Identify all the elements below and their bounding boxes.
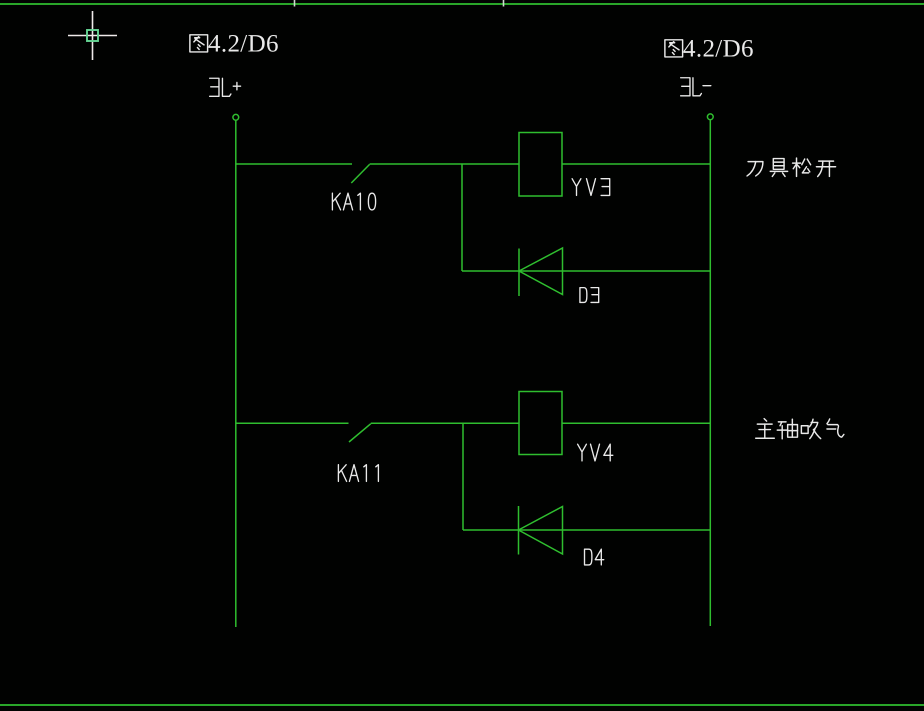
label YV3: [572, 179, 610, 196]
sheet reference label 图4.2/D6 (left): [190, 31, 279, 58]
wire branch1 horizontal to diode and bus: [462, 270, 710, 272]
diode D3 (cathode bar and triangle): [519, 248, 563, 296]
terminal circle node 3L+: [233, 114, 239, 120]
label D4: [585, 549, 604, 565]
solenoid coil YV4: [519, 392, 562, 455]
contact KA10 (normally-open switch blade): [351, 164, 369, 183]
label D3: [580, 288, 599, 303]
label YV4: [578, 444, 613, 461]
wire rung1 middle segment: [370, 163, 519, 165]
label KA11: [338, 465, 378, 482]
wire branch2 horizontal to diode and bus: [463, 529, 710, 531]
diode D4 (cathode bar and triangle): [519, 506, 563, 555]
wire rung1 left segment: [236, 163, 352, 165]
wire left bus 3L+ vertical: [235, 120, 237, 627]
wire rung2 left segment: [236, 422, 349, 424]
contact KA11 (normally-open switch blade): [349, 424, 371, 442]
terminal circle node 3L-: [707, 114, 713, 120]
wire rung2 right segment: [562, 422, 710, 424]
svg-text:4.2/D6: 4.2/D6: [208, 31, 279, 58]
svg-text:4.2/D6: 4.2/D6: [683, 36, 754, 63]
node 3L- label: [681, 78, 711, 96]
wire right bus 3L- vertical: [709, 120, 711, 626]
solenoid coil YV3: [519, 133, 562, 197]
wire rung2 middle segment: [371, 422, 519, 424]
sheet reference label 图4.2/D6 (right): [665, 36, 754, 63]
label 刀具松开 (tool release): [747, 158, 836, 176]
node 3L+ label: [210, 78, 241, 96]
crosshair cursor with pickbox: [68, 11, 117, 60]
label 主轴吹气 (spindle air blow): [756, 419, 844, 439]
wire rung1 right segment: [562, 163, 710, 165]
label KA10: [332, 193, 375, 210]
wire branch1 vertical drop: [461, 164, 463, 271]
wire branch2 vertical drop: [462, 423, 464, 530]
